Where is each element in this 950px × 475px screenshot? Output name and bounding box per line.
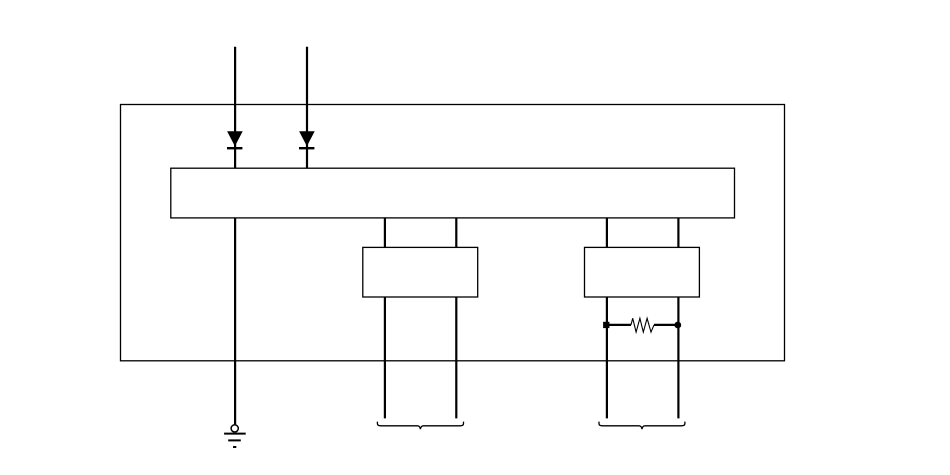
right block U3 <box>585 247 700 297</box>
wire ground drop <box>234 218 236 425</box>
diode D1 <box>227 131 243 149</box>
module outline <box>121 105 785 361</box>
wire left block lead B <box>455 297 457 418</box>
bus U1 <box>171 168 735 218</box>
wire right block lead B <box>677 297 679 418</box>
wire left block lead A <box>384 297 386 418</box>
resistor R1 <box>607 318 679 332</box>
left block U2 <box>363 247 478 297</box>
wire bus to right block pin A <box>606 218 608 248</box>
wire right block lead A <box>606 297 608 418</box>
ground <box>224 425 246 447</box>
brace left <box>377 422 463 430</box>
wire input 2 <box>306 47 308 168</box>
node square left <box>603 322 609 328</box>
wire input 1 <box>234 47 236 168</box>
node dot right <box>674 322 681 329</box>
wire bus to right block pin B <box>677 218 679 248</box>
wire bus to left block pin B <box>455 218 457 248</box>
wire bus to left block pin A <box>384 218 386 248</box>
diode D2 <box>299 131 315 149</box>
brace right <box>599 422 685 430</box>
